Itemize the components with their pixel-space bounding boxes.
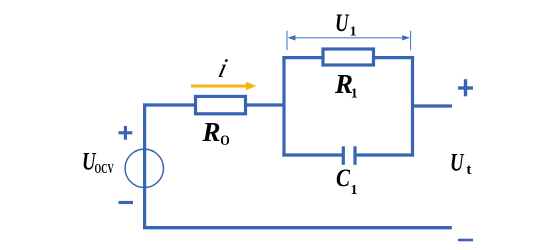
wire: RC box left vertical [282,56,285,157]
svg-text:UOCV: UOCV [82,149,114,178]
wire: R0 to RC box [246,103,285,106]
resistor R0 body [196,96,246,113]
minus sign at output terminal [458,239,473,242]
svg-text:R1: R1 [334,69,358,102]
wire: output lead right of box [411,104,452,107]
resistor R1 body [323,49,374,65]
wire: RC box bottom-left to capacitor [282,153,343,156]
wire: capacitor to RC box bottom-right [355,153,414,156]
wire: RC box top side [282,56,414,59]
minus sign at source [119,201,134,204]
capacitor C1 left plate [342,146,345,165]
plus sign at output terminal [458,79,473,96]
wire: left vertical from top wire down to bottom wire [143,103,146,229]
voltage source U_OCV circle [125,149,163,187]
svg-text:Ut: Ut [450,150,471,179]
current arrow i [191,82,256,91]
svg-text:U1: U1 [335,10,357,40]
plus sign at source [119,126,133,140]
dimension arrow for U1 [287,31,411,50]
wire: RC box right vertical [411,56,414,157]
svg-text:i: i [216,53,231,83]
capacitor C1 right plate [353,146,356,165]
svg-text:C1: C1 [336,165,358,198]
svg-text:RO: RO [202,117,230,149]
wire: top horizontal from source to R0 [143,103,195,106]
wire: bottom horizontal rail [143,226,452,229]
